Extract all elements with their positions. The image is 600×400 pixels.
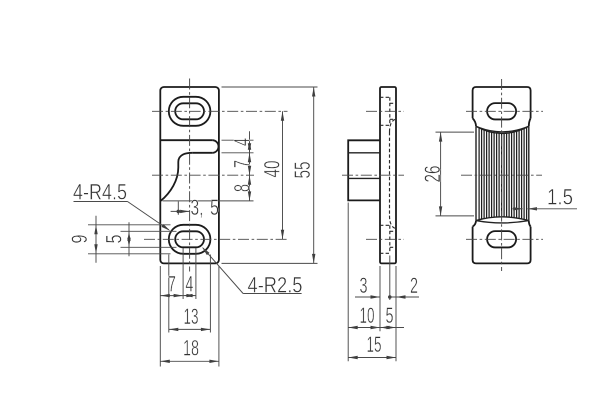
svg-text:40: 40: [260, 161, 285, 178]
svg-text:4-R2.5: 4-R2.5: [248, 273, 303, 298]
svg-text:13: 13: [184, 304, 199, 329]
svg-text:8: 8: [230, 184, 255, 192]
svg-text:10: 10: [360, 303, 375, 328]
svg-text:55: 55: [290, 162, 315, 179]
svg-text:15: 15: [367, 332, 382, 357]
svg-text:5: 5: [210, 195, 219, 220]
svg-text:7: 7: [168, 272, 176, 297]
svg-text:18: 18: [183, 336, 199, 361]
svg-text:1.5: 1.5: [547, 185, 573, 210]
svg-text:3: 3: [360, 273, 368, 298]
svg-text:4: 4: [230, 138, 255, 146]
svg-text:4: 4: [185, 272, 193, 297]
svg-text:9: 9: [67, 235, 92, 244]
svg-text:26: 26: [420, 166, 445, 183]
svg-text:3,: 3,: [191, 195, 204, 220]
svg-text:5: 5: [102, 235, 127, 244]
svg-text:7: 7: [230, 160, 255, 168]
svg-text:5: 5: [386, 303, 394, 328]
svg-text:4-R4.5: 4-R4.5: [73, 180, 127, 205]
svg-text:2: 2: [410, 273, 418, 298]
